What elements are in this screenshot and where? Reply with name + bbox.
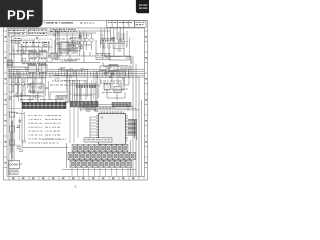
connector CN404 medium strip right <box>112 102 131 107</box>
wire harness upper-center region <box>54 31 83 61</box>
diode D301 matrix <box>100 39 116 44</box>
grid reference letters right margin <box>145 36 147 164</box>
label text above switch bank <box>42 138 66 141</box>
resistor R408 column <box>16 93 23 103</box>
label text upper-left parts <box>22 62 46 65</box>
wire harness mid-right band <box>101 66 132 79</box>
resistor R105 network <box>15 38 21 44</box>
chip resistor bank RA501 <box>76 85 96 88</box>
note table NT2 <box>29 29 48 35</box>
label specks scatter mid <box>14 67 121 93</box>
wire rail below switch bank <box>62 168 136 170</box>
IC203 vertical sync box <box>96 54 110 60</box>
wire vertical bus left margin <box>9 36 14 170</box>
key matrix switch bank row 1 <box>72 145 128 152</box>
IC202 regulator <box>50 53 57 58</box>
label text under rail <box>52 58 80 61</box>
capacitor C153 row <box>23 42 49 43</box>
title header small text mid <box>64 22 73 23</box>
wire harness upper-left region <box>9 37 49 62</box>
key matrix switch bank row 2 <box>68 152 135 160</box>
IC403 switch <box>30 83 44 94</box>
PDF badge dark chip <box>0 0 43 27</box>
power connector CN801 <box>9 161 20 169</box>
border grid tick marks right edge <box>145 31 148 168</box>
label text mid-right <box>100 81 125 84</box>
wire horizontal bus top <box>48 31 110 35</box>
transistor Q405 group <box>11 79 24 92</box>
wire vertical drops center <box>80 31 84 56</box>
IC501 mode control <box>56 96 68 103</box>
signal value list text column <box>45 115 61 139</box>
wire harness around microprocessor <box>80 104 98 111</box>
schematic sheet outer border frame <box>4 21 148 181</box>
wire bank left edge <box>66 143 68 168</box>
IC601 sync separator <box>109 65 118 71</box>
IC602 chroma decoder <box>104 83 111 91</box>
wire harness mid-left region <box>9 64 49 101</box>
IC402 audio processor <box>39 63 48 74</box>
wire net upper-left cluster <box>22 41 52 62</box>
wire net upper-right to border <box>104 31 131 64</box>
wire net center lower <box>50 82 96 104</box>
grid reference numbers bottom margin <box>12 178 134 179</box>
wire harness left strip lower <box>9 108 25 159</box>
wire bus above microprocessor <box>80 105 139 112</box>
connector box above switch bank <box>84 138 112 142</box>
capacitor C610 row <box>121 66 131 69</box>
connector CN402 dark strip <box>22 102 66 108</box>
capacitor C214 row labels <box>80 44 91 47</box>
grid reference letters left margin <box>5 36 7 164</box>
signal name list text column <box>29 115 43 139</box>
border grid tick marks left edge <box>4 31 8 168</box>
ceramic filter X601 <box>100 62 106 71</box>
svg-text:PDF: PDF <box>7 8 35 23</box>
resistor R210 ladder <box>79 38 85 42</box>
IC151 head amp <box>29 50 37 60</box>
note table NT1 <box>9 29 28 36</box>
wire horizontal rail y62 <box>8 62 100 64</box>
title header sheet caption text <box>47 22 73 23</box>
title header model number box <box>135 21 147 28</box>
microprocessor IC701 QFP body <box>99 114 126 145</box>
label text mid-center <box>52 80 74 83</box>
diode D205 pair <box>70 38 81 39</box>
model number dark box top-right <box>136 0 153 13</box>
shield bus vertical lines <box>56 29 60 60</box>
junction nodes on main bus <box>17 69 138 78</box>
left lower component chain <box>10 112 25 145</box>
wire drops below switch bank <box>72 168 128 177</box>
label specks scatter upper <box>12 39 80 52</box>
microprocessor IC701 top pins <box>100 111 123 113</box>
wire net mid-upper center <box>48 40 131 64</box>
label text CN801 <box>9 170 19 175</box>
wire bottom-left <box>9 150 22 177</box>
title header page ref text <box>80 23 94 24</box>
IC201 servo amp <box>59 42 71 53</box>
microprocessor IC701 right pins <box>126 116 128 141</box>
wire harness upper-right region <box>101 32 130 59</box>
label text band top-center <box>50 29 77 32</box>
capacitor C305 cluster <box>103 45 115 48</box>
title header revision table <box>107 21 135 28</box>
svg-text:5: 5 <box>75 185 77 189</box>
connector CN101 left <box>8 60 13 67</box>
wire stubs crossing main bus <box>50 70 128 78</box>
title header small text left <box>44 22 57 23</box>
resistor array RA701 right of IC701 <box>128 120 136 136</box>
microprocessor IC701 left pins <box>96 116 98 141</box>
wire feed to switch bank <box>22 110 68 148</box>
border grid tick marks bottom ruler <box>9 177 144 181</box>
wire vertical bundle upper-right <box>101 28 123 40</box>
wire vertical bundle center <box>70 80 80 104</box>
wire stubs crossing left bus <box>10 70 46 78</box>
transistor Q206 pair circles <box>85 33 94 50</box>
label text upper-right <box>118 40 130 43</box>
transistor Q204 cluster <box>70 40 78 54</box>
label IC701 text <box>99 108 115 109</box>
connector CN403 medium strip <box>70 101 98 107</box>
wire net chroma section <box>107 89 128 100</box>
wire right side vertical bus <box>131 56 142 177</box>
page number text <box>75 185 77 189</box>
shield box dashed upper-left <box>21 39 52 62</box>
IC603 delay line <box>114 87 122 93</box>
key matrix switch bank row 3 <box>70 160 132 167</box>
wire verticals CN403 to switch bank <box>70 107 78 143</box>
wire harness mid-center region <box>53 68 100 103</box>
wire main horizontal bus center <box>8 70 145 78</box>
IC152 head amp <box>39 50 47 60</box>
wire net mid-right <box>100 69 133 90</box>
wire net mid-left <box>9 72 46 102</box>
label text mid-left parts <box>12 74 42 77</box>
wire left of IC701 <box>90 117 96 138</box>
label text above CN402 <box>20 98 62 101</box>
microprocessor IC701 bottom pins <box>100 145 123 147</box>
wire fan-out vertical collectors <box>135 119 137 140</box>
signal list extra row <box>29 143 59 144</box>
IC401 audio processor <box>28 63 37 74</box>
